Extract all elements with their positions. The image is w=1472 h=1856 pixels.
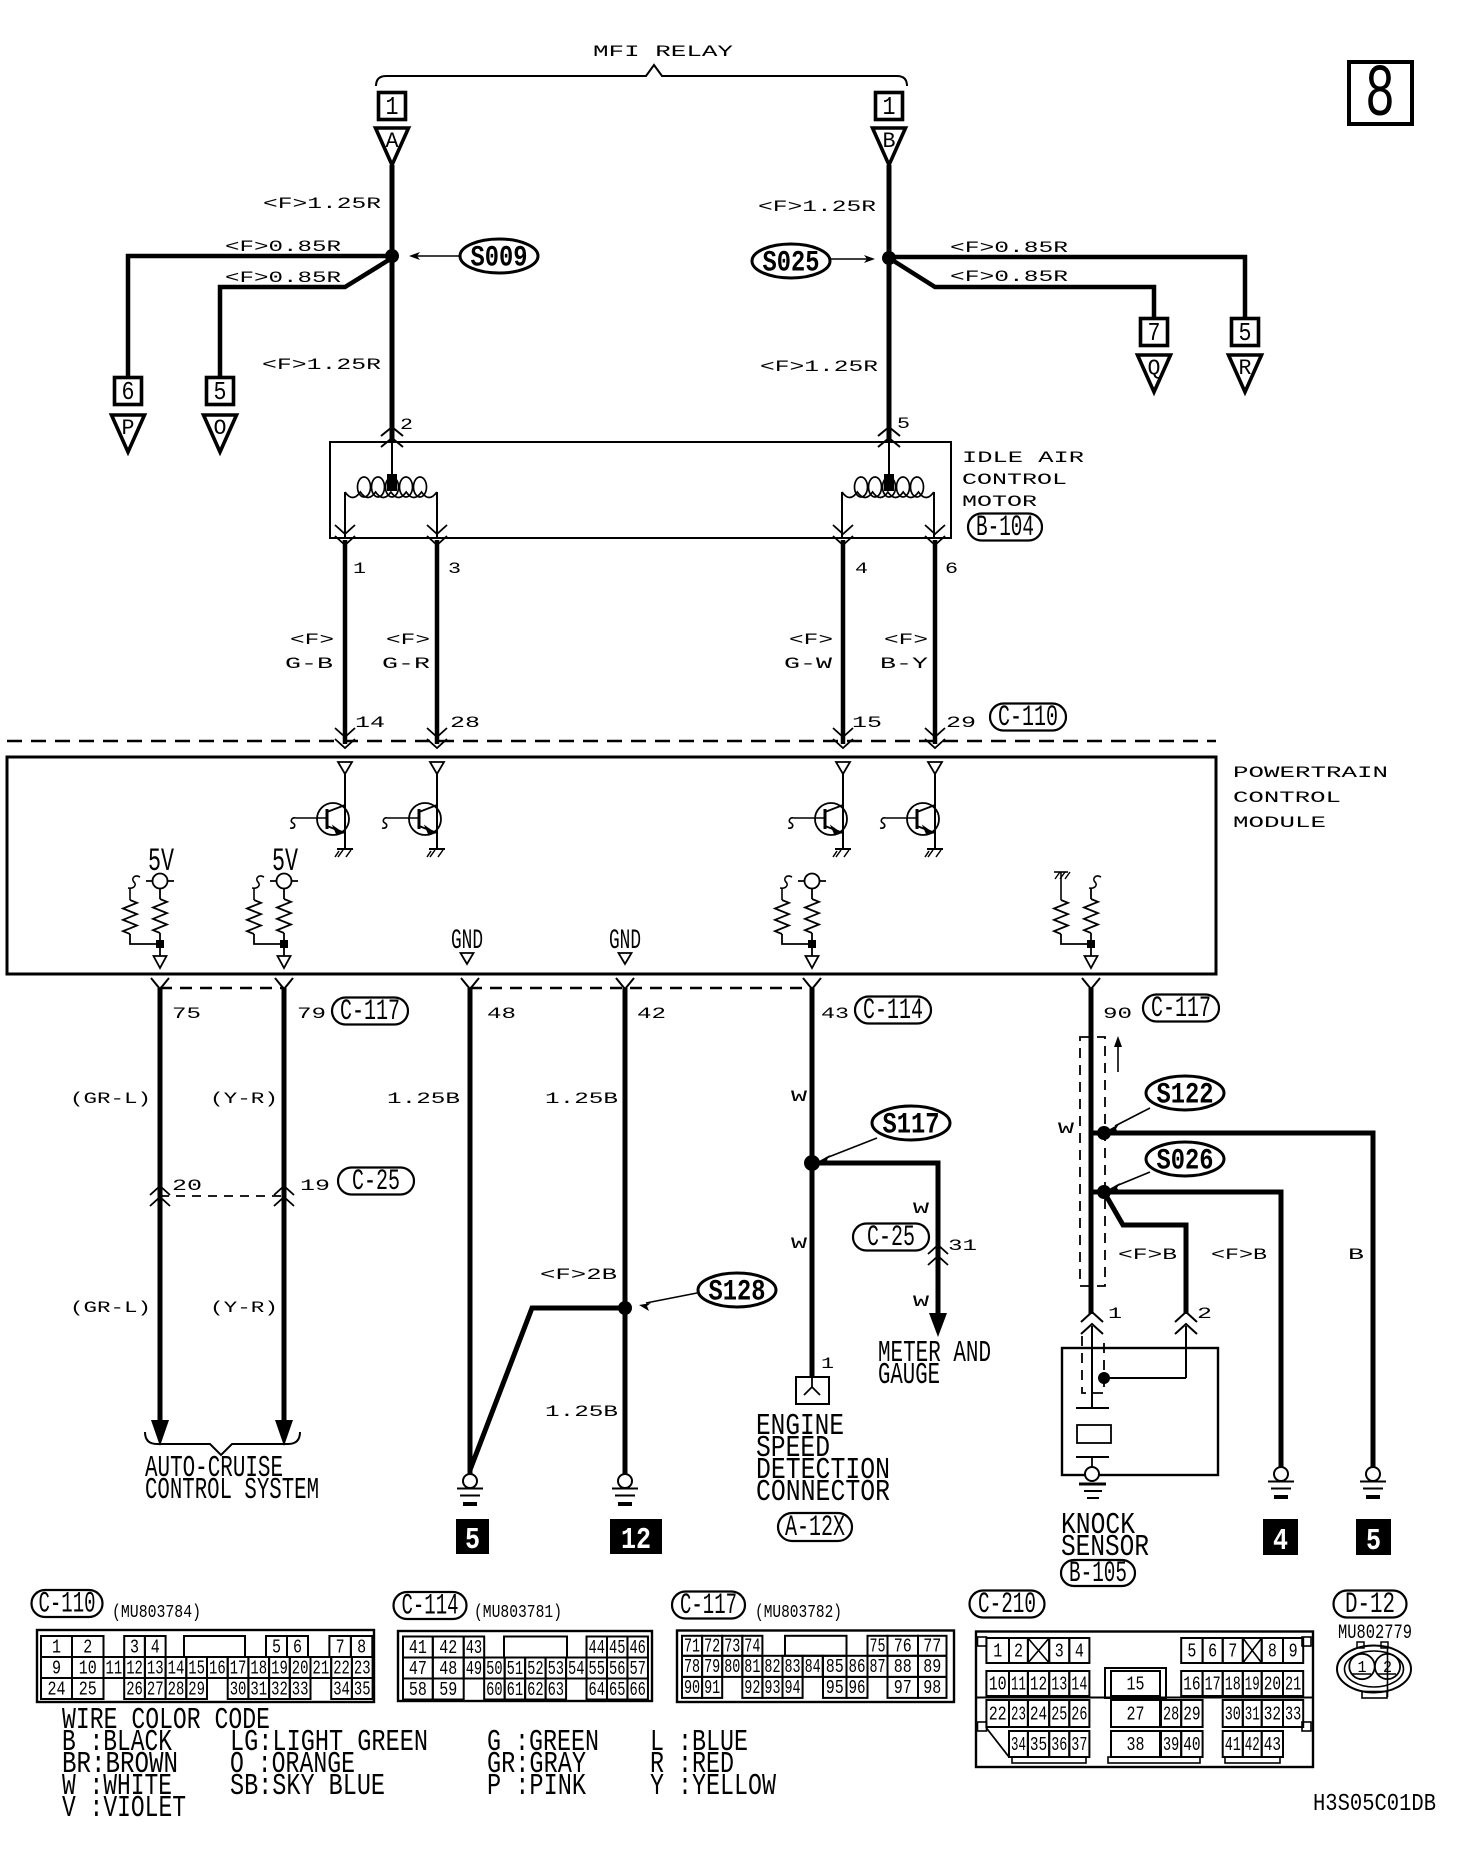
svg-text:37: 37 <box>1071 1734 1087 1756</box>
wire crossing chevrons at C-25 pin 19 <box>274 1186 294 1206</box>
transistor driver for pin 15 <box>788 803 847 835</box>
svg-text:C-110: C-110 <box>998 701 1058 735</box>
svg-text:94: 94 <box>785 1677 801 1699</box>
svg-text:50: 50 <box>486 1658 502 1680</box>
splice S009 <box>409 239 538 276</box>
terminal R <box>1229 355 1262 392</box>
svg-text:42: 42 <box>637 1005 666 1023</box>
PCM 5V pullup for pin 43 <box>775 874 826 969</box>
pin number 1 (A-12X) <box>821 1355 834 1373</box>
wire crossing chevrons at C-110 <box>833 728 853 748</box>
ground <box>925 849 943 857</box>
svg-text:17: 17 <box>230 1657 247 1679</box>
svg-text:91: 91 <box>704 1677 720 1699</box>
svg-text:18: 18 <box>1225 1673 1241 1695</box>
wire IAC pin 4 down to PCM <box>841 540 846 744</box>
connector label C-25 <box>338 1165 414 1199</box>
svg-text:79: 79 <box>704 1656 720 1678</box>
wire branch to terminal P <box>128 256 392 378</box>
svg-text:45: 45 <box>609 1637 625 1659</box>
PCM 5V pullup for pin 79 <box>247 843 299 968</box>
ground pin triangle <box>461 953 474 964</box>
svg-text:34: 34 <box>1011 1734 1026 1756</box>
svg-text:CONTROL SYSTEM: CONTROL SYSTEM <box>145 1473 319 1508</box>
svg-text:82: 82 <box>764 1656 780 1678</box>
svg-text:W: W <box>913 1200 930 1218</box>
ground knock sensor <box>1079 1467 1106 1498</box>
svg-text:2: 2 <box>1014 1640 1023 1662</box>
knock sensor case ground <box>1076 1457 1109 1467</box>
label (F)1.25R to IAC <box>262 356 382 374</box>
transistor driver for pin 28 <box>382 803 441 835</box>
resistor right <box>153 899 167 933</box>
label W (90) <box>1058 1120 1075 1138</box>
svg-text:5: 5 <box>897 415 910 433</box>
svg-text:97: 97 <box>894 1677 912 1699</box>
pin number 31 <box>948 1237 977 1255</box>
terminal B <box>873 128 906 165</box>
node shield junction dot <box>1098 1372 1110 1384</box>
svg-text:51: 51 <box>507 1658 523 1680</box>
svg-text:22: 22 <box>989 1703 1007 1725</box>
svg-text:65: 65 <box>609 1679 625 1701</box>
PCM 5V pullup for pin 75 <box>123 843 175 968</box>
svg-text:24: 24 <box>48 1678 66 1700</box>
pin number 1 (knock) <box>1108 1305 1122 1323</box>
wire pin 79 (Y-R) <box>282 988 287 1412</box>
wire crossing chevrons knock pin 2 <box>1175 1312 1197 1334</box>
svg-text:W: W <box>791 1235 808 1253</box>
wire IAC pin 1 down to PCM <box>343 540 348 744</box>
svg-text:19: 19 <box>1245 1673 1260 1695</box>
svg-text:13: 13 <box>147 1657 164 1679</box>
transistor driver for pin 29 <box>880 803 939 835</box>
ground terminal 5 <box>456 1519 489 1558</box>
svg-text:98: 98 <box>923 1677 941 1699</box>
connector label C-114 (43) <box>855 994 931 1028</box>
svg-text:55: 55 <box>589 1658 605 1680</box>
svg-text:35: 35 <box>354 1678 371 1700</box>
svg-text:1: 1 <box>52 1636 61 1658</box>
connector label A-12X <box>778 1511 852 1545</box>
label (F) G-W <box>784 631 833 673</box>
svg-text:48: 48 <box>487 1005 516 1023</box>
IAC solenoid coil left <box>345 442 437 538</box>
svg-text:19: 19 <box>300 1177 330 1195</box>
svg-text:72: 72 <box>704 1636 720 1658</box>
svg-text:<F>1.25R: <F>1.25R <box>262 356 382 374</box>
svg-text:G-B: G-B <box>285 655 333 673</box>
svg-text:96: 96 <box>849 1677 866 1699</box>
svg-text:<F>: <F> <box>789 631 833 649</box>
svg-text:26: 26 <box>1071 1703 1087 1725</box>
node S026 junction dot <box>1097 1185 1111 1199</box>
label 1.25B (48) <box>387 1090 460 1108</box>
svg-text:2: 2 <box>400 416 413 434</box>
engine speed detection connector terminal box <box>796 1377 829 1404</box>
connector label C-25 (31) <box>853 1221 929 1255</box>
svg-text:43: 43 <box>466 1637 482 1659</box>
PCM pin 28 triangle <box>430 762 444 774</box>
svg-text:88: 88 <box>894 1656 912 1678</box>
svg-text:MFI RELAY: MFI RELAY <box>593 43 734 61</box>
svg-text:23: 23 <box>354 1657 371 1679</box>
svg-text:90: 90 <box>1103 1005 1132 1023</box>
pin triangle <box>806 956 819 968</box>
svg-text:B-105: B-105 <box>1069 1557 1127 1591</box>
svg-text:32: 32 <box>1264 1703 1281 1725</box>
node S128 junction dot <box>618 1301 632 1315</box>
svg-text:Q: Q <box>1148 356 1161 381</box>
pin number 79 <box>297 1005 326 1023</box>
splice S026 <box>1109 1142 1224 1192</box>
svg-text:64: 64 <box>589 1679 605 1701</box>
wire IAC pin 6 down to PCM <box>933 540 938 744</box>
connector D-12 heading <box>1334 1588 1413 1645</box>
pin number 20 <box>172 1177 202 1195</box>
node S117 junction dot <box>804 1155 820 1171</box>
svg-text:7: 7 <box>1228 1640 1237 1662</box>
svg-text:1.25B: 1.25B <box>545 1090 618 1108</box>
svg-text:P: P <box>122 416 135 441</box>
svg-text:42: 42 <box>439 1637 457 1659</box>
svg-text:43: 43 <box>821 1005 849 1023</box>
svg-text:<F>0.85R: <F>0.85R <box>225 269 342 287</box>
svg-text:4: 4 <box>1075 1640 1084 1662</box>
junction dot <box>1087 940 1095 948</box>
label (F)2B <box>540 1266 617 1284</box>
ground for pin 42 <box>612 1474 638 1504</box>
connector table C-110 <box>37 1630 374 1702</box>
ground <box>427 849 445 857</box>
svg-text:<F>: <F> <box>290 631 334 649</box>
PCM pin 43 stub chevron <box>803 978 821 989</box>
svg-text:3: 3 <box>130 1636 139 1658</box>
wire S122 branch to ground 5 <box>1091 1133 1373 1474</box>
terminal Q <box>1138 355 1171 392</box>
svg-text:R: R <box>1239 356 1252 381</box>
svg-text:84: 84 <box>805 1656 821 1678</box>
IAC pin 4 exit chevrons <box>833 525 853 545</box>
svg-text:1: 1 <box>1358 1659 1367 1678</box>
svg-text:P :PINK: P :PINK <box>487 1769 586 1804</box>
connector label B-104 <box>968 511 1042 545</box>
svg-text:A: A <box>386 129 400 154</box>
svg-text:39: 39 <box>1163 1734 1179 1756</box>
svg-text:28: 28 <box>1163 1703 1179 1725</box>
IAC pin 1 exit chevrons <box>335 525 355 545</box>
svg-text:4: 4 <box>151 1636 160 1658</box>
label B <box>1348 1246 1364 1264</box>
PCM pin 90 stub chevron <box>1082 978 1100 989</box>
shield arrow up <box>1114 1036 1122 1072</box>
svg-text:Y :YELLOW: Y :YELLOW <box>650 1769 776 1804</box>
svg-text:31: 31 <box>250 1678 267 1700</box>
splice S128 <box>639 1273 776 1311</box>
svg-text:77: 77 <box>923 1636 941 1658</box>
svg-text:38: 38 <box>1127 1734 1145 1756</box>
svg-text:25: 25 <box>79 1678 97 1700</box>
svg-text:13: 13 <box>1051 1673 1067 1695</box>
svg-text:1: 1 <box>821 1355 834 1373</box>
connector label C-117 (75/79) <box>332 995 408 1029</box>
svg-text:79: 79 <box>297 1005 326 1023</box>
svg-text:8: 8 <box>357 1636 366 1658</box>
svg-text:54: 54 <box>568 1658 584 1680</box>
pin number 6 <box>945 560 958 578</box>
pin number 2 <box>400 416 413 434</box>
label GND <box>609 926 641 957</box>
wire S117 branch to meter and gauge <box>812 1163 938 1315</box>
svg-text:4: 4 <box>855 560 868 578</box>
label MFI RELAY <box>593 43 734 61</box>
knock sensor element <box>1077 1425 1111 1443</box>
svg-text:41: 41 <box>409 1637 427 1659</box>
svg-text:62: 62 <box>527 1679 543 1701</box>
svg-text:31: 31 <box>1245 1703 1260 1725</box>
svg-text:B: B <box>883 129 896 154</box>
svg-text:14: 14 <box>355 714 385 732</box>
svg-text:C-25: C-25 <box>867 1221 915 1255</box>
pin number 28 <box>450 714 480 732</box>
pin number 1 <box>353 560 366 578</box>
node S025 junction dot <box>882 251 896 265</box>
wire IAC pin 3 down to PCM <box>435 540 440 744</box>
IAC pin 3 exit chevrons <box>427 525 447 545</box>
label (GR-L) lower <box>70 1299 151 1317</box>
resistor left <box>128 876 140 888</box>
svg-text:15: 15 <box>188 1657 205 1679</box>
svg-text:63: 63 <box>548 1679 564 1701</box>
ground for terminal 5 <box>1360 1467 1386 1497</box>
svg-text:76: 76 <box>894 1636 912 1658</box>
wire crossing chevrons at C-110 <box>925 728 945 748</box>
svg-text:8: 8 <box>1268 1640 1277 1662</box>
svg-text:(MU803782): (MU803782) <box>755 1603 842 1623</box>
wire S128 branch 42 to 48 ground <box>470 1308 625 1470</box>
arrow to auto-cruise right <box>275 1412 293 1446</box>
connector label C-117 (90) <box>1143 992 1219 1026</box>
wire branch to terminal Q <box>889 258 1154 319</box>
brace under auto-cruise wires <box>145 1432 300 1455</box>
page number 8 box <box>1349 54 1412 138</box>
wire crossing chevrons at C-110 <box>427 728 447 748</box>
svg-text:28: 28 <box>168 1678 185 1700</box>
svg-text:POWERTRAIN: POWERTRAIN <box>1233 764 1388 782</box>
svg-text:CONNECTOR: CONNECTOR <box>756 1475 890 1510</box>
connector table C-110 heading <box>32 1588 202 1623</box>
wire crossing chevrons at C-25 pin 31 <box>928 1245 948 1265</box>
svg-text:21: 21 <box>313 1657 330 1679</box>
wire pin 48 to ground <box>468 988 473 1474</box>
PCM pin 29 triangle <box>928 762 942 774</box>
label (F) B-Y <box>880 631 929 673</box>
wire arrow into IAC pin 2 <box>381 427 403 447</box>
svg-text:9: 9 <box>1289 1640 1298 1662</box>
label IDLE AIR CONTROL MOTOR <box>962 449 1085 511</box>
svg-text:71: 71 <box>684 1636 700 1658</box>
PCM pin 14 triangle <box>338 762 352 774</box>
connector D-12 drawing <box>1337 1642 1411 1698</box>
svg-text:18: 18 <box>250 1657 267 1679</box>
svg-text:52: 52 <box>527 1658 543 1680</box>
svg-text:49: 49 <box>466 1658 482 1680</box>
svg-text:S026: S026 <box>1157 1145 1214 1179</box>
pin number 75 <box>172 1005 201 1023</box>
shielded cable dashed box upper <box>1080 1037 1105 1286</box>
resistor left <box>780 876 792 888</box>
label (F)B left <box>1118 1246 1177 1264</box>
svg-text:1: 1 <box>993 1640 1002 1662</box>
svg-text:O: O <box>214 416 227 441</box>
svg-text:<F>1.25R: <F>1.25R <box>758 198 877 216</box>
terminal A <box>376 128 409 165</box>
svg-text:56: 56 <box>609 1658 625 1680</box>
svg-text:9: 9 <box>52 1657 61 1679</box>
resistor right <box>805 899 819 933</box>
svg-text:2: 2 <box>1383 1659 1392 1678</box>
label METER AND GAUGE <box>878 1336 991 1393</box>
svg-text:34: 34 <box>333 1678 350 1700</box>
label (F)1.25R right <box>758 198 877 216</box>
svg-text:12: 12 <box>621 1523 651 1558</box>
svg-text:75: 75 <box>870 1636 886 1658</box>
svg-text:74: 74 <box>744 1636 760 1658</box>
svg-text:3: 3 <box>1055 1640 1064 1662</box>
svg-text:S128: S128 <box>709 1276 766 1310</box>
svg-text:8: 8 <box>1365 54 1395 138</box>
wire PCM pin 28 to transistor <box>436 774 438 849</box>
connector table C-117 <box>677 1631 954 1703</box>
pin number 43 <box>821 1005 849 1023</box>
svg-text:25: 25 <box>1051 1703 1067 1725</box>
power terminal 5V circle <box>1089 876 1101 888</box>
pin triangle <box>278 956 291 968</box>
svg-text:20: 20 <box>292 1657 309 1679</box>
svg-text:1: 1 <box>1108 1305 1122 1323</box>
idle air control motor box B-104 <box>330 442 951 538</box>
wire knock pin 1 inside box <box>1076 1326 1109 1408</box>
wire S026 branch to ground 4 <box>1091 1192 1281 1474</box>
wire crossing chevrons at C-25 pin 20 <box>150 1186 170 1206</box>
wire PCM pin 14 to transistor <box>344 774 346 849</box>
svg-text:32: 32 <box>271 1678 288 1700</box>
connector label C-110 <box>990 701 1066 735</box>
wire PCM pin 15 to transistor <box>842 774 844 849</box>
svg-text:C-117: C-117 <box>340 995 400 1029</box>
splice S025 <box>752 244 875 281</box>
svg-text:30: 30 <box>1225 1703 1241 1725</box>
label (GR-L) <box>70 1090 151 1108</box>
label KNOCK SENSOR <box>1061 1508 1149 1565</box>
pin number 5 <box>897 415 910 433</box>
terminal O <box>204 415 237 452</box>
svg-text:(MU803784): (MU803784) <box>112 1603 201 1623</box>
svg-text:10: 10 <box>989 1673 1007 1695</box>
wire crossing chevrons knock pin 1 <box>1081 1312 1103 1334</box>
svg-text:CONTROL: CONTROL <box>962 471 1067 489</box>
svg-text:C-210: C-210 <box>978 1588 1036 1622</box>
svg-text:C-117: C-117 <box>1151 992 1211 1026</box>
svg-text:5: 5 <box>465 1523 480 1558</box>
svg-text:G-W: G-W <box>784 655 833 673</box>
svg-text:MOTOR: MOTOR <box>962 493 1038 511</box>
label (F)B right <box>1211 1246 1267 1264</box>
svg-text:10: 10 <box>79 1657 97 1679</box>
wire crossing chevrons at C-110 <box>335 728 355 748</box>
label W <box>791 1088 808 1106</box>
svg-text:(Y-R): (Y-R) <box>210 1090 278 1108</box>
svg-text:12: 12 <box>126 1657 143 1679</box>
wire branch to terminal O <box>220 258 392 378</box>
svg-text:16: 16 <box>1183 1673 1200 1695</box>
svg-text:G-R: G-R <box>382 655 431 673</box>
PCM pin 42 stub chevron <box>616 978 634 989</box>
wire color code legend <box>62 1703 776 1826</box>
label (F) G-B <box>285 631 334 673</box>
pin number 90 <box>1103 1005 1132 1023</box>
svg-text:S009: S009 <box>471 242 528 276</box>
svg-text:12: 12 <box>1030 1673 1047 1695</box>
svg-text:36: 36 <box>1051 1734 1067 1756</box>
svg-text:81: 81 <box>744 1656 760 1678</box>
svg-text:C-25: C-25 <box>352 1165 400 1199</box>
connector table C-210 <box>976 1632 1313 1768</box>
IAC pin 6 exit chevrons <box>925 525 945 545</box>
svg-text:SB:SKY BLUE: SB:SKY BLUE <box>230 1769 385 1804</box>
svg-text:33: 33 <box>1285 1703 1301 1725</box>
svg-text:95: 95 <box>826 1677 844 1699</box>
wire branch to terminal R <box>889 257 1245 319</box>
label GND <box>451 926 483 957</box>
ground <box>335 849 353 857</box>
resistor right <box>277 899 291 933</box>
svg-text:7: 7 <box>336 1636 345 1658</box>
svg-text:93: 93 <box>764 1677 780 1699</box>
resistor right <box>1084 899 1098 933</box>
svg-text:<F>2B: <F>2B <box>540 1266 617 1284</box>
svg-text:40: 40 <box>1183 1734 1200 1756</box>
PCM pullup for pin 90 <box>1054 872 1101 968</box>
svg-text:26: 26 <box>126 1678 143 1700</box>
svg-text:(Y-R): (Y-R) <box>210 1299 278 1317</box>
svg-text:92: 92 <box>744 1677 760 1699</box>
dashed connector line C-25 <box>160 1195 284 1197</box>
svg-text:24: 24 <box>1030 1703 1047 1725</box>
shielded cable dashed box lower <box>1082 1336 1104 1393</box>
dashed connector line 75-79 <box>160 987 284 989</box>
svg-text:S122: S122 <box>1157 1079 1214 1113</box>
MFI relay pin 1 (A side) <box>379 92 406 122</box>
connector table C-114 <box>398 1631 652 1701</box>
svg-text:47: 47 <box>409 1658 427 1680</box>
resistor left <box>1054 871 1068 873</box>
wire pin 43 (W) down <box>810 988 815 1377</box>
splice S117 <box>819 1106 950 1164</box>
svg-text:11: 11 <box>106 1657 123 1679</box>
pin number 2 (knock) <box>1197 1305 1212 1323</box>
svg-text:29: 29 <box>946 714 976 732</box>
svg-text:89: 89 <box>923 1656 941 1678</box>
junction dot <box>808 940 816 948</box>
svg-text:87: 87 <box>870 1656 886 1678</box>
svg-text:GAUGE: GAUGE <box>878 1358 940 1393</box>
ground terminal 12 <box>610 1519 662 1558</box>
power terminal 5V circle <box>146 880 174 882</box>
PCM pin 48 stub chevron <box>461 978 479 989</box>
svg-text:2: 2 <box>1197 1305 1212 1323</box>
svg-text:27: 27 <box>1127 1703 1145 1725</box>
